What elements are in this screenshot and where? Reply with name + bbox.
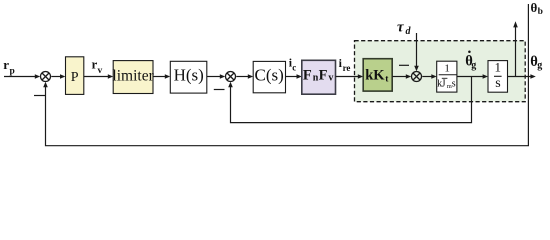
svg-text:limiter: limiter xyxy=(112,68,154,85)
svg-text:b: b xyxy=(538,7,543,17)
wire: r_p input xyxy=(4,74,40,79)
block kKt xyxy=(363,59,392,91)
svg-text:F: F xyxy=(303,68,312,84)
label i_re xyxy=(339,56,351,73)
svg-text:C(s): C(s) xyxy=(255,66,284,85)
block P xyxy=(66,57,84,95)
summing junction J3 xyxy=(412,72,422,82)
wire J2 to C(s) xyxy=(236,74,253,79)
label i_c xyxy=(289,56,297,73)
svg-text:v: v xyxy=(98,66,103,76)
label r_p xyxy=(3,57,14,76)
block 1/s xyxy=(488,59,508,92)
svg-text:P: P xyxy=(71,70,79,85)
wire H(s) to J2 xyxy=(207,74,225,79)
wire limiter to H(s) xyxy=(153,74,170,79)
svg-text:1: 1 xyxy=(495,59,502,74)
label theta_g output xyxy=(530,54,542,71)
block FnFv xyxy=(302,60,336,94)
svg-text:s: s xyxy=(452,79,456,90)
wire rate feedback down and left to J2 xyxy=(228,77,471,123)
block limiter xyxy=(112,61,154,94)
svg-text:H(s): H(s) xyxy=(174,66,204,85)
block H(s) xyxy=(170,61,207,93)
svg-text:s: s xyxy=(495,76,500,91)
wire 1/s to theta_g output xyxy=(508,74,536,79)
wire J1 to P xyxy=(51,74,65,79)
label thetadot_g xyxy=(465,51,476,72)
wire motor block to 1/s xyxy=(457,74,488,79)
minus sign at J3 xyxy=(399,64,409,66)
up output arrow inside box xyxy=(513,21,518,76)
dashed subsystem box xyxy=(355,41,526,102)
svg-text:J: J xyxy=(442,79,446,90)
outer position feedback wire down and left to J1 xyxy=(43,77,528,146)
wire kKt to J3 xyxy=(392,74,411,79)
wire J3 to motor block xyxy=(422,74,436,79)
summing junction J2 xyxy=(226,72,236,82)
svg-text:kK: kK xyxy=(365,68,385,84)
label tau_d xyxy=(397,19,412,37)
block C(s) xyxy=(253,61,285,92)
svg-text:F: F xyxy=(319,68,328,84)
minus sign at J2 xyxy=(214,89,225,91)
svg-text:c: c xyxy=(292,63,296,73)
svg-text:r: r xyxy=(3,57,9,72)
svg-text:1: 1 xyxy=(444,62,450,74)
wire P to limiter xyxy=(84,74,113,79)
summing junction J1 xyxy=(41,72,51,82)
svg-text:g: g xyxy=(537,60,542,71)
svg-text:p: p xyxy=(10,66,15,76)
wire tau_d into J3 xyxy=(414,33,419,71)
wire C(s) to FnFv xyxy=(286,74,302,79)
minus sign at J1 xyxy=(34,95,45,97)
label theta_b xyxy=(531,0,543,17)
svg-text:re: re xyxy=(343,63,351,73)
svg-text:g: g xyxy=(471,60,476,71)
svg-text:v: v xyxy=(328,73,333,84)
svg-text:θ: θ xyxy=(531,0,538,15)
label r_v xyxy=(92,57,103,76)
wire FnFv to kKt xyxy=(336,74,364,79)
block 1/(kJms) xyxy=(437,61,457,92)
theta_b branch wire up xyxy=(527,4,529,77)
